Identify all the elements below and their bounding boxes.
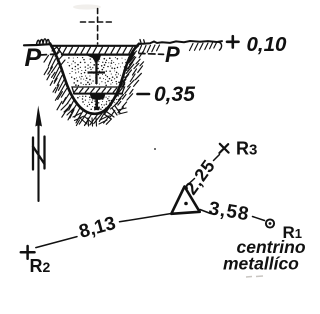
faint specks bbox=[154, 148, 156, 150]
soil hatching around pit excavation bbox=[44, 46, 144, 126]
svg-text:2,25: 2,25 bbox=[181, 156, 220, 199]
benchmark marker lower bbox=[90, 94, 106, 110]
sight line station to R3 (two segments broken by 2,25) bbox=[188, 155, 220, 185]
benchmark marker upper (black flange + stem + crossbar) bbox=[86, 55, 106, 84]
soil hatch under right ground line near pit bbox=[139, 45, 160, 53]
svg-text:0,35: 0,35 bbox=[154, 83, 195, 106]
svg-text:3,58: 3,58 bbox=[207, 198, 251, 225]
middle slab (hatched) bbox=[72, 87, 125, 94]
sight line station to R1 (two segments broken by 3,58) bbox=[200, 210, 265, 221]
grass zigzag on left ground bbox=[37, 39, 50, 44]
svg-text:0,10: 0,10 bbox=[247, 33, 287, 56]
ticks above right ground line bbox=[140, 40, 145, 43]
elevation label -0,35 bbox=[138, 93, 150, 96]
elevation label +0,10 bbox=[227, 36, 239, 47]
top slab bottom thick edge bbox=[62, 53, 132, 55]
R2 station cross bbox=[21, 246, 35, 259]
centerline dashed cross above benchmark bbox=[81, 9, 113, 45]
ground line right bbox=[139, 41, 222, 44]
station triangle bbox=[171, 187, 199, 214]
concrete stipple lower pocket bbox=[77, 95, 119, 111]
north N symbol bbox=[33, 137, 45, 170]
station center dot bbox=[184, 202, 188, 206]
top slab (hatched) bbox=[56, 46, 137, 55]
dashed section line to right P bbox=[139, 53, 164, 56]
end curl on right ground line bbox=[218, 42, 221, 50]
svg-text:R2: R2 bbox=[30, 256, 51, 276]
smudge top-left bbox=[73, 4, 101, 9]
pit excavation outline (thick bowl curve) bbox=[50, 44, 139, 114]
mid slab bottom thick edge bbox=[74, 93, 122, 95]
R3 station x-mark bbox=[219, 144, 228, 153]
north arrow head bbox=[35, 106, 42, 127]
dashes right of left P bbox=[40, 54, 57, 55]
top slab top thick edge (ground level) bbox=[52, 45, 137, 47]
concrete stipple upper block bbox=[67, 57, 129, 87]
north arrow shaft bbox=[37, 122, 39, 201]
svg-text:metallíco: metallíco bbox=[223, 254, 299, 274]
svg-text:8,13: 8,13 bbox=[77, 213, 118, 243]
soil hatch under right ground line far group bbox=[190, 43, 217, 51]
svg-text:P: P bbox=[25, 44, 42, 72]
ground line left bbox=[24, 44, 50, 45]
svg-text:R3: R3 bbox=[236, 139, 257, 159]
sight line R2 to station (two segments, broken by 8,13) bbox=[36, 214, 171, 248]
R1 target circle (centrino) bbox=[266, 219, 274, 227]
crosshatch clusters under bowl bottom bbox=[61, 103, 127, 126]
svg-text:P: P bbox=[165, 42, 180, 67]
